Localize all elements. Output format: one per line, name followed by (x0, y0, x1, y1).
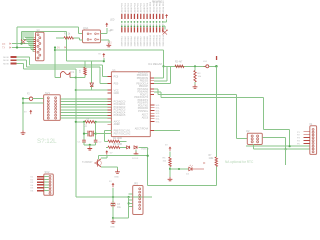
svg-text:110k: 110k (209, 158, 215, 160)
svg-text:330R RN6: 330R RN6 (138, 36, 140, 47)
svg-text:R2 4k7: R2 4k7 (175, 62, 183, 64)
svg-text:330R RN10: 330R RN10 (150, 34, 152, 46)
svg-text:R4 100R: R4 100R (113, 138, 122, 140)
svg-text:X1: X1 (309, 122, 313, 126)
svg-text:RX: RX (2, 43, 6, 46)
svg-text:330R RN12: 330R RN12 (156, 34, 158, 46)
svg-text:D2 D3: D2 D3 (132, 158, 139, 160)
svg-text:SV2: SV2 (45, 170, 50, 174)
svg-text:LED1 PD0: LED1 PD0 (122, 2, 124, 13)
svg-text:PC5/ADC5: PC5/ADC5 (114, 114, 126, 117)
svg-text:LED3 PD2: LED3 PD2 (128, 2, 130, 13)
svg-text:LED9 PD8: LED9 PD8 (147, 2, 149, 13)
svg-text:GND: GND (110, 227, 115, 229)
svg-text:LED6 PD5: LED6 PD5 (138, 2, 140, 13)
svg-text:GND: GND (114, 92, 120, 95)
svg-text:SV1: SV1 (45, 91, 50, 95)
svg-text:JP2: JP2 (134, 182, 139, 186)
svg-text:R1 1k: R1 1k (64, 33, 71, 36)
svg-text:330R RN8: 330R RN8 (144, 36, 146, 47)
svg-text:D15: D15 (108, 43, 113, 45)
svg-text:LED14 PD13: LED14 PD13 (163, 0, 165, 13)
svg-text:NA optional for RTC: NA optional for RTC (225, 160, 254, 164)
svg-text:R5 100R: R5 100R (113, 144, 122, 146)
svg-text:IC1 MEGA8: IC1 MEGA8 (148, 62, 162, 66)
svg-text:T1 BC547: T1 BC547 (82, 162, 93, 164)
svg-text:S?:12L: S?:12L (37, 138, 57, 145)
svg-text:LED5 PD4: LED5 PD4 (134, 2, 136, 13)
svg-text:330R RN11: 330R RN11 (153, 34, 155, 46)
svg-text:LED7 PD6: LED7 PD6 (141, 2, 143, 13)
svg-text:1M: 1M (86, 119, 89, 121)
svg-text:GND: GND (114, 177, 119, 179)
svg-text:MOSI: MOSI (3, 57, 9, 59)
svg-text:MOSI: MOSI (3, 64, 9, 66)
svg-text:330R RN7: 330R RN7 (141, 36, 143, 47)
svg-text:Q2: Q2 (246, 129, 250, 133)
svg-text:LED2 PD1: LED2 PD1 (125, 2, 127, 13)
svg-text:PB7/TOSC2/X2: PB7/TOSC2/X2 (114, 133, 131, 136)
svg-text:330R RN3: 330R RN3 (128, 36, 130, 47)
svg-text:330R RN1: 330R RN1 (122, 36, 124, 47)
svg-text:5V: 5V (57, 47, 60, 50)
svg-text:TX: TX (2, 47, 5, 50)
svg-text:330R RN4: 330R RN4 (131, 36, 133, 47)
svg-text:ADC6: ADC6 (142, 116, 149, 119)
svg-text:ADC7/PC4A: ADC7/PC4A (135, 127, 149, 130)
svg-text:330R RN5: 330R RN5 (134, 36, 136, 47)
svg-text:LED8 PD7: LED8 PD7 (144, 2, 146, 13)
svg-text:PD0: PD0 (114, 82, 119, 85)
svg-text:PC6: PC6 (114, 76, 119, 79)
svg-text:330R RN13: 330R RN13 (160, 34, 162, 46)
svg-text:330R RN9: 330R RN9 (147, 36, 149, 47)
svg-text:RN: RN (110, 30, 114, 32)
svg-text:JP1: JP1 (36, 28, 41, 32)
svg-text:330R RN2: 330R RN2 (125, 36, 127, 47)
svg-text:AREF: AREF (114, 123, 121, 126)
svg-text:RN1 RN2: RN1 RN2 (152, 0, 163, 3)
svg-text:LED: LED (110, 20, 115, 22)
svg-text:330R RN14: 330R RN14 (163, 34, 165, 46)
svg-text:PC5/SCL: PC5/SCL (138, 110, 149, 113)
svg-text:LED4 PD3: LED4 PD3 (131, 2, 133, 13)
svg-text:MOSI: MOSI (3, 60, 9, 62)
svg-text:QG1: QG1 (83, 26, 89, 30)
